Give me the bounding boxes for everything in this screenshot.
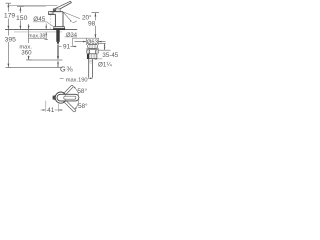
arc down (75, 100, 79, 109)
svg-text:max.190: max.190 (66, 78, 88, 84)
faucet lever (54, 1, 72, 11)
svg-text:179: 179 (4, 13, 16, 20)
ext line x72.5 (72, 38, 74, 46)
basin hatch left (87, 50, 90, 54)
svg-text:98: 98 (88, 21, 96, 28)
faucet body top line (50, 11, 63, 13)
max38 dim line (45, 24, 47, 40)
hose end line y60 (29, 59, 63, 61)
dim 179 line (7, 3, 9, 29)
popup nut (87, 54, 97, 59)
plan view spout tip (53, 95, 56, 100)
hose line (57, 45, 59, 59)
20 deg ray B arrow (70, 20, 72, 22)
svg-text:150: 150 (16, 15, 28, 22)
svg-text:35-45: 35-45 (102, 52, 118, 59)
dim 395 bottom arrow (8, 64, 10, 68)
faucet cartridge collar (53, 9, 60, 12)
dim 41 ext lines (46, 101, 59, 112)
basin hatch right (96, 50, 99, 54)
faucet body sides (53, 12, 63, 27)
plan view lever down position (63, 100, 76, 112)
deck bottom line (14, 31, 62, 33)
extension line spout top (17, 6, 46, 8)
dim Ø63 (75, 41, 106, 43)
dim 41 line/arrows (41, 109, 63, 111)
arc up (74, 87, 79, 95)
dim 150 tick top (17, 6, 24, 8)
popup plug (88, 44, 98, 48)
tailpipe (89, 59, 93, 78)
plan view inner circle (57, 94, 64, 101)
dim max360 line (28, 24, 30, 60)
svg-text:395: 395 (5, 36, 17, 43)
svg-text:91: 91 (63, 44, 71, 51)
svg-text:Ø34: Ø34 (66, 32, 78, 38)
dim 179 arrows (8, 4, 10, 8)
deck line (5, 29, 77, 31)
plan view body circle (55, 92, 66, 103)
svg-text:58°: 58° (78, 102, 88, 110)
Ø34 leader underline (65, 36, 78, 38)
Ø45 leader (33, 22, 54, 27)
dim 395 line below deck (7, 30, 9, 67)
svg-text:max.38: max.38 (28, 34, 45, 40)
Ø1 1/4 leader arrow (96, 58, 102, 60)
spout tip / aerator (48, 12, 53, 15)
20 deg arc (72, 21, 76, 23)
plan view lever neutral inner (64, 96, 76, 99)
dim max360 arrows (28, 26, 30, 30)
dim max360 tick (26, 59, 31, 61)
dim 150 line (19, 7, 21, 30)
dim 179 tick top (6, 2, 12, 4)
dim 98 top tick (92, 12, 100, 14)
ext line y38.2 (73, 37, 100, 39)
dim 35-45 (98, 42, 106, 44)
20 deg ray B (63, 12, 71, 21)
dim 98 line (94, 13, 96, 38)
20 deg ray A (63, 12, 80, 19)
svg-text:41: 41 (47, 107, 55, 114)
dim 395 tick bottom (6, 66, 12, 68)
popup flange (86, 49, 98, 50)
svg-text:360: 360 (21, 50, 32, 57)
bottom reference line y67.4 (8, 66, 63, 68)
svg-text:58°: 58° (77, 87, 87, 95)
faucet base escutcheon (54, 27, 65, 30)
hose below arrow (57, 60, 59, 63)
svg-text:Ø45: Ø45 (33, 16, 46, 23)
dim 150 arrows (20, 7, 22, 11)
shank (56, 30, 59, 42)
extension line lever top (8, 5, 58, 7)
svg-text:Ø1¼: Ø1¼ (98, 61, 112, 68)
svg-text:G ⅜: G ⅜ (60, 64, 73, 73)
plan view lever up position (63, 85, 74, 95)
max38 leader underline (28, 37, 46, 39)
jet dashed line (50, 15, 52, 29)
plan view lever neutral outer (57, 94, 79, 101)
